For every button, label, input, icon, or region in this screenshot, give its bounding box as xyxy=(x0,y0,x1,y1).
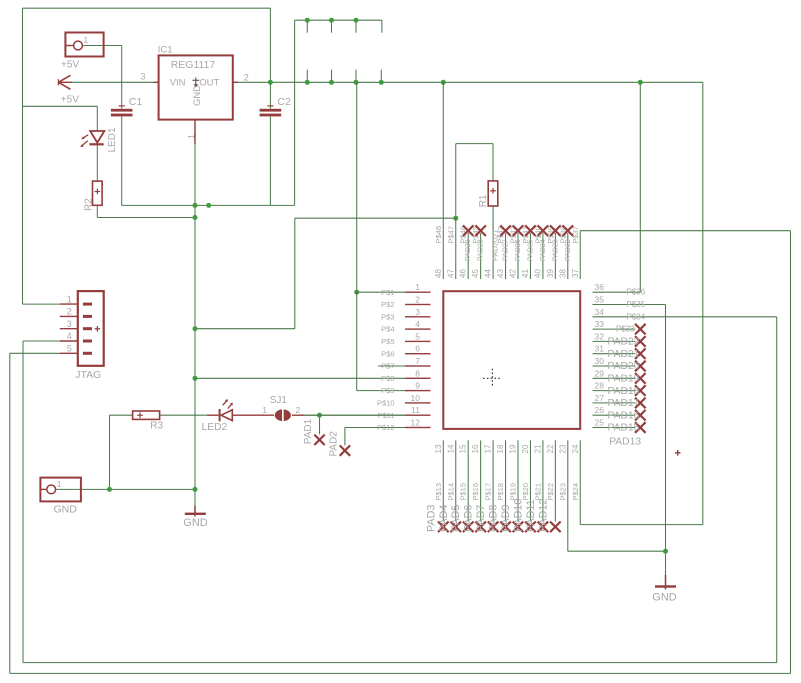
svg-text:35: 35 xyxy=(595,295,605,305)
svg-text:P$23: P$23 xyxy=(558,483,567,501)
svg-text:PAD9: PAD9 xyxy=(500,505,512,532)
svg-text:13: 13 xyxy=(434,444,443,453)
svg-text:4: 4 xyxy=(415,319,420,329)
svg-text:R1: R1 xyxy=(478,194,489,207)
svg-text:14: 14 xyxy=(446,444,455,453)
svg-text:PAD11: PAD11 xyxy=(525,499,537,532)
svg-text:36: 36 xyxy=(595,282,605,292)
svg-text:1: 1 xyxy=(84,35,89,45)
svg-text:P$9: P$9 xyxy=(381,386,394,395)
svg-text:P$18: P$18 xyxy=(496,483,505,501)
svg-text:P$48: P$48 xyxy=(434,226,443,244)
svg-text:17: 17 xyxy=(484,444,493,453)
svg-text:37: 37 xyxy=(571,269,580,278)
svg-text:PAD4: PAD4 xyxy=(438,505,450,532)
svg-text:PAD15: PAD15 xyxy=(608,423,640,434)
svg-text:3: 3 xyxy=(415,307,420,317)
svg-text:PAD17: PAD17 xyxy=(608,398,640,409)
svg-text:18: 18 xyxy=(496,444,505,453)
svg-text:P$10: P$10 xyxy=(377,399,395,408)
svg-text:PAD19: PAD19 xyxy=(608,374,640,385)
svg-text:PAD2: PAD2 xyxy=(329,431,340,457)
svg-text:28: 28 xyxy=(595,381,605,391)
svg-text:PAD7: PAD7 xyxy=(475,505,487,532)
svg-text:20: 20 xyxy=(521,444,530,453)
svg-text:R2: R2 xyxy=(83,198,94,211)
svg-text:3: 3 xyxy=(141,72,146,82)
svg-text:48: 48 xyxy=(434,269,443,278)
svg-text:12: 12 xyxy=(411,418,421,428)
svg-text:P$16: P$16 xyxy=(471,483,480,501)
svg-text:SJ1: SJ1 xyxy=(270,395,288,406)
svg-text:38: 38 xyxy=(558,269,567,278)
svg-text:11: 11 xyxy=(411,405,420,415)
svg-text:PAD21: PAD21 xyxy=(608,349,640,360)
svg-text:2: 2 xyxy=(244,73,249,83)
svg-text:P$20: P$20 xyxy=(521,483,530,501)
svg-text:32: 32 xyxy=(595,331,605,341)
svg-text:26: 26 xyxy=(595,405,605,415)
svg-text:PAD10: PAD10 xyxy=(512,499,524,532)
svg-text:29: 29 xyxy=(595,368,605,378)
svg-text:P$1: P$1 xyxy=(381,288,394,297)
svg-text:P$24: P$24 xyxy=(571,483,580,501)
svg-text:P$33: P$33 xyxy=(616,325,635,334)
svg-text:41: 41 xyxy=(521,269,530,278)
svg-text:25: 25 xyxy=(595,418,605,428)
svg-text:LED2: LED2 xyxy=(202,422,228,433)
svg-text:1: 1 xyxy=(262,405,267,415)
svg-text:P$34: P$34 xyxy=(627,312,646,321)
svg-text:JTAG: JTAG xyxy=(75,369,101,381)
svg-text:PAD1: PAD1 xyxy=(303,418,314,444)
svg-text:24: 24 xyxy=(571,444,580,453)
svg-text:P$22: P$22 xyxy=(546,483,555,501)
svg-text:1: 1 xyxy=(415,282,420,292)
svg-text:9: 9 xyxy=(415,381,420,391)
svg-text:P$19: P$19 xyxy=(509,483,518,501)
svg-text:PAD3: PAD3 xyxy=(425,505,437,532)
svg-text:P$21: P$21 xyxy=(533,483,542,501)
svg-text:GND: GND xyxy=(652,591,677,603)
svg-text:R3: R3 xyxy=(150,421,163,432)
svg-text:10: 10 xyxy=(411,393,421,403)
svg-text:GND: GND xyxy=(183,517,208,529)
svg-text:PAD28: PAD28 xyxy=(478,239,485,261)
svg-text:P$6: P$6 xyxy=(381,349,394,358)
svg-text:33: 33 xyxy=(595,319,605,329)
svg-text:5: 5 xyxy=(415,331,420,341)
svg-text:47: 47 xyxy=(446,269,455,278)
svg-text:4: 4 xyxy=(67,331,72,341)
svg-text:34: 34 xyxy=(595,307,605,317)
svg-text:45: 45 xyxy=(471,269,480,278)
svg-text:C2: C2 xyxy=(277,96,291,108)
svg-text:2: 2 xyxy=(296,405,301,415)
svg-text:19: 19 xyxy=(509,444,518,453)
svg-text:P$47: P$47 xyxy=(446,226,455,244)
svg-text:PAD22: PAD22 xyxy=(608,337,640,348)
svg-text:3: 3 xyxy=(67,319,72,329)
svg-text:C1: C1 xyxy=(129,96,143,108)
svg-text:P$36: P$36 xyxy=(627,288,646,297)
svg-text:22: 22 xyxy=(546,444,555,453)
svg-text:15: 15 xyxy=(459,444,468,453)
svg-text:46: 46 xyxy=(459,269,468,278)
svg-text:+5V: +5V xyxy=(61,60,79,71)
svg-text:27: 27 xyxy=(595,393,605,403)
svg-text:VIN: VIN xyxy=(170,77,186,88)
svg-text:REG1117: REG1117 xyxy=(171,59,216,71)
svg-text:42: 42 xyxy=(509,269,518,278)
svg-text:1: 1 xyxy=(67,294,72,304)
svg-text:P$37: P$37 xyxy=(571,226,580,244)
svg-text:44: 44 xyxy=(484,269,493,278)
svg-text:P$14: P$14 xyxy=(446,483,455,501)
svg-text:P$3: P$3 xyxy=(381,312,394,321)
svg-text:1: 1 xyxy=(57,479,62,489)
svg-text:2: 2 xyxy=(415,295,420,305)
svg-text:P$17: P$17 xyxy=(484,483,493,501)
svg-text:PAD20: PAD20 xyxy=(608,361,640,372)
svg-text:30: 30 xyxy=(595,356,605,366)
svg-text:23: 23 xyxy=(558,444,567,453)
svg-text:21: 21 xyxy=(533,444,542,453)
svg-text:PAD6: PAD6 xyxy=(463,505,475,532)
svg-text:P$4: P$4 xyxy=(381,325,394,334)
svg-text:39: 39 xyxy=(546,269,555,278)
svg-text:43: 43 xyxy=(496,269,505,278)
svg-text:PAD16: PAD16 xyxy=(608,410,640,421)
svg-text:GND: GND xyxy=(54,504,78,516)
svg-text:PAD12: PAD12 xyxy=(537,499,549,532)
svg-text:LED1: LED1 xyxy=(107,127,118,152)
svg-text:P$2: P$2 xyxy=(381,300,394,309)
svg-text:P$5: P$5 xyxy=(381,337,394,346)
svg-text:16: 16 xyxy=(471,444,480,453)
svg-text:PAD8: PAD8 xyxy=(488,505,500,532)
svg-text:6: 6 xyxy=(415,344,420,354)
svg-text:31: 31 xyxy=(595,344,605,354)
svg-text:PAD13: PAD13 xyxy=(609,437,641,448)
svg-text:PAD5: PAD5 xyxy=(450,505,462,532)
svg-text:8: 8 xyxy=(415,368,420,378)
svg-text:5: 5 xyxy=(67,344,72,354)
svg-text:40: 40 xyxy=(533,269,542,278)
svg-text:7: 7 xyxy=(415,356,420,366)
svg-text:PAD2021: PAD2021 xyxy=(491,229,500,261)
svg-text:PAD18: PAD18 xyxy=(608,386,640,397)
svg-text:+5V: +5V xyxy=(61,95,79,106)
svg-text:GND: GND xyxy=(192,85,203,106)
svg-text:2: 2 xyxy=(67,307,72,317)
svg-text:P$15: P$15 xyxy=(459,483,468,501)
svg-text:P$35: P$35 xyxy=(627,300,646,309)
svg-text:P$8: P$8 xyxy=(381,374,394,383)
svg-text:P$13: P$13 xyxy=(434,483,443,501)
svg-text:IC1: IC1 xyxy=(158,45,173,56)
